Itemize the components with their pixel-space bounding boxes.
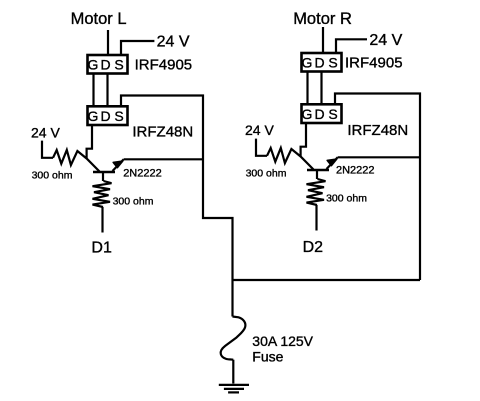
svg-text:24 V: 24 V: [369, 32, 402, 49]
svg-text:2N2222: 2N2222: [336, 164, 375, 176]
svg-text:D2: D2: [303, 239, 324, 256]
svg-text:IRF4905: IRF4905: [135, 57, 193, 74]
svg-text:24 V: 24 V: [31, 124, 60, 140]
svg-text:S: S: [328, 106, 337, 122]
svg-text:S: S: [328, 55, 337, 71]
svg-text:G: G: [87, 57, 98, 73]
svg-text:D: D: [314, 106, 324, 122]
svg-text:D: D: [100, 108, 110, 124]
svg-text:IRFZ48N: IRFZ48N: [132, 124, 193, 141]
svg-text:Fuse: Fuse: [252, 349, 283, 365]
svg-text:S: S: [114, 108, 123, 124]
svg-text:IRF4905: IRF4905: [345, 55, 403, 72]
svg-text:IRFZ48N: IRFZ48N: [347, 122, 408, 139]
svg-text:S: S: [114, 57, 123, 73]
svg-text:2N2222: 2N2222: [123, 167, 162, 179]
svg-text:G: G: [301, 106, 312, 122]
svg-text:30A 125V: 30A 125V: [252, 333, 313, 349]
svg-text:24 V: 24 V: [245, 122, 274, 138]
svg-text:G: G: [87, 108, 98, 124]
svg-text:G: G: [301, 55, 312, 71]
svg-text:300 ohm: 300 ohm: [32, 170, 73, 182]
svg-text:300 ohm: 300 ohm: [246, 168, 287, 180]
svg-text:Motor R: Motor R: [293, 10, 352, 28]
svg-text:D1: D1: [91, 240, 112, 257]
svg-text:D: D: [314, 55, 324, 71]
svg-text:300 ohm: 300 ohm: [113, 196, 154, 208]
svg-text:Motor L: Motor L: [71, 10, 127, 28]
svg-text:24 V: 24 V: [157, 33, 190, 50]
svg-text:D: D: [100, 57, 110, 73]
svg-text:300 ohm: 300 ohm: [326, 193, 367, 205]
